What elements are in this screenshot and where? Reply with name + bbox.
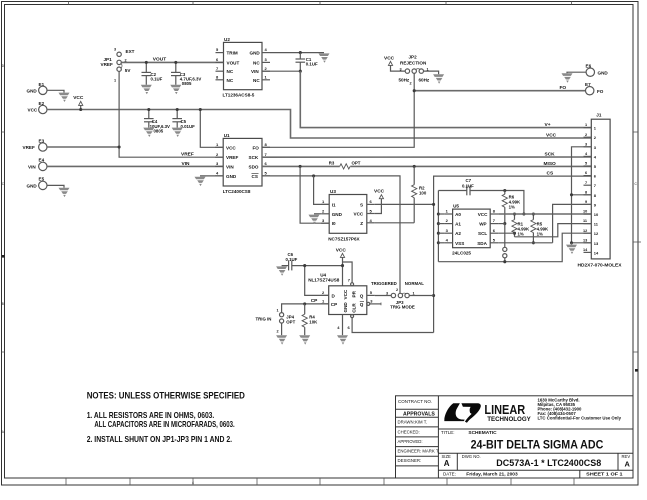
eeprom U5 24LC025 bbox=[445, 204, 499, 256]
capacitor C4 bbox=[144, 108, 170, 134]
svg-text:NORMAL: NORMAL bbox=[405, 281, 424, 286]
svg-text:NC: NC bbox=[227, 78, 234, 83]
resistor R3 bbox=[329, 161, 361, 169]
terminal E5 bbox=[27, 177, 48, 190]
svg-text:VIN: VIN bbox=[251, 69, 259, 74]
terminal E6 bbox=[586, 64, 609, 77]
svg-text:VCC: VCC bbox=[546, 132, 557, 138]
ground bbox=[141, 85, 152, 94]
svg-text:C7: C7 bbox=[466, 178, 472, 183]
capacitor C2 bbox=[142, 61, 163, 85]
svg-text:VCC: VCC bbox=[73, 95, 84, 101]
svg-text:REJECTION: REJECTION bbox=[400, 61, 427, 66]
svg-text:NC7SZ157P6X: NC7SZ157P6X bbox=[328, 236, 360, 241]
svg-text:2: 2 bbox=[396, 288, 398, 292]
svg-text:REV: REV bbox=[622, 454, 631, 459]
wire E1 to ground bbox=[47, 90, 64, 92]
svg-text:E4: E4 bbox=[39, 158, 45, 163]
svg-text:0.1UF: 0.1UF bbox=[306, 61, 318, 66]
svg-text:S: S bbox=[360, 202, 363, 207]
svg-text:HD2X7-070-MOLEX: HD2X7-070-MOLEX bbox=[578, 262, 622, 267]
svg-text:50Hz: 50Hz bbox=[399, 77, 410, 82]
wire U1 CS to U3 pin 1 bbox=[314, 176, 330, 205]
svg-text:PR: PR bbox=[352, 290, 357, 297]
resistor R1 bbox=[512, 212, 530, 236]
svg-text:GND: GND bbox=[343, 302, 348, 313]
svg-text:KIM T.: KIM T. bbox=[415, 420, 427, 425]
svg-text:0.01UF: 0.01UF bbox=[181, 124, 196, 129]
svg-text:VCC: VCC bbox=[374, 189, 385, 195]
svg-text:11: 11 bbox=[583, 219, 587, 223]
svg-text:GND: GND bbox=[27, 183, 38, 188]
wire SCL to J1 pin 11 bbox=[515, 224, 592, 237]
svg-text:9: 9 bbox=[585, 200, 587, 204]
jumper JP2 REJECTION bbox=[399, 55, 430, 86]
wire U3 GND to ground bbox=[314, 213, 321, 215]
svg-text:CONTRACT NO.: CONTRACT NO. bbox=[398, 399, 432, 404]
svg-text:0.1UF: 0.1UF bbox=[151, 77, 163, 82]
jumper JP3 TRIG MODE bbox=[371, 281, 434, 310]
logo LTC bbox=[444, 403, 531, 423]
svg-text:DC573A-1 * LTC2400CS8: DC573A-1 * LTC2400CS8 bbox=[496, 458, 601, 468]
svg-text:1%: 1% bbox=[537, 232, 543, 237]
svg-text:TITLE:: TITLE: bbox=[441, 430, 455, 435]
svg-text:10K: 10K bbox=[309, 320, 318, 325]
ground bbox=[337, 335, 348, 344]
wire U3 Z to R2 bbox=[375, 222, 414, 224]
wire U3 S to node bbox=[375, 203, 435, 206]
svg-text:3: 3 bbox=[114, 48, 116, 52]
svg-text:12: 12 bbox=[594, 231, 599, 236]
VCC symbol at JP2 bbox=[384, 55, 405, 71]
wire E3 to JP1 net bbox=[47, 146, 119, 148]
svg-text:A: A bbox=[444, 459, 450, 468]
wire VCC to U4 PR pin bbox=[343, 262, 353, 283]
svg-text:SDA: SDA bbox=[477, 241, 487, 246]
svg-text:OPT: OPT bbox=[286, 319, 295, 324]
svg-text:WP: WP bbox=[479, 222, 486, 227]
svg-text:2: 2 bbox=[410, 82, 412, 86]
svg-text:DATE:: DATE: bbox=[443, 472, 456, 477]
svg-text:Friday, March 21, 2003: Friday, March 21, 2003 bbox=[466, 472, 518, 478]
ground at C6 bbox=[276, 266, 287, 275]
svg-text:TRIG MODE: TRIG MODE bbox=[390, 305, 415, 310]
svg-text:U2: U2 bbox=[224, 37, 230, 42]
svg-text:SCL: SCL bbox=[478, 231, 487, 236]
svg-text:VCC: VCC bbox=[28, 108, 38, 113]
wire JP1 pin1 down to VREF net and U1 pin 2 bbox=[118, 71, 224, 157]
svg-text:FO: FO bbox=[597, 89, 604, 94]
svg-text:GND: GND bbox=[598, 70, 609, 75]
ground bbox=[195, 177, 206, 186]
wire U5 address bus bbox=[437, 191, 445, 262]
svg-text:GND: GND bbox=[27, 88, 38, 93]
svg-text:EXT: EXT bbox=[126, 49, 135, 54]
size dwg rev row bbox=[442, 454, 631, 468]
date sheet row bbox=[443, 472, 623, 478]
svg-text:R3: R3 bbox=[329, 161, 335, 166]
title row bbox=[441, 430, 604, 451]
svg-text:0.1UF: 0.1UF bbox=[462, 183, 474, 188]
wire U4 GND to ground bbox=[342, 315, 344, 336]
svg-text:Q: Q bbox=[360, 294, 364, 299]
wire CS U1 pin 5 to JP3 pin 2 bbox=[262, 174, 400, 293]
svg-text:A2: A2 bbox=[455, 231, 461, 236]
svg-text:2. INSTALL SHUNT ON JP1-JP3 P: 2. INSTALL SHUNT ON JP1-JP3 PIN 1 AND 2. bbox=[87, 434, 232, 444]
svg-text:J1: J1 bbox=[596, 112, 602, 117]
notes text bbox=[87, 391, 245, 444]
svg-text:LTC2400CS8: LTC2400CS8 bbox=[223, 189, 251, 194]
connector J1 HD2X7-070-MOLEX bbox=[578, 112, 622, 267]
VCC symbol bbox=[73, 95, 84, 111]
svg-text:1%: 1% bbox=[509, 204, 515, 209]
svg-text:6: 6 bbox=[585, 171, 587, 175]
wire SDO/MISO U1 pin 6 to J1 pin 5 bbox=[262, 165, 591, 168]
terminal E1 bbox=[27, 82, 48, 95]
svg-text:0805: 0805 bbox=[182, 81, 192, 86]
terminal E7 bbox=[585, 82, 604, 95]
svg-text:TRIGGERED: TRIGGERED bbox=[371, 281, 397, 286]
wire E6 to ground bbox=[567, 72, 586, 73]
svg-text:CP: CP bbox=[331, 302, 337, 307]
svg-text:VOUT: VOUT bbox=[227, 60, 240, 65]
capacitor C5 bbox=[172, 108, 195, 129]
svg-text:LT1236ACS8-5: LT1236ACS8-5 bbox=[223, 93, 255, 98]
svg-text:Z: Z bbox=[360, 221, 363, 226]
wire VCC rail E2 to J1 pin 2 bbox=[47, 110, 591, 139]
svg-text:VOUT: VOUT bbox=[153, 56, 166, 62]
svg-text:APPROVED:: APPROVED: bbox=[398, 439, 423, 444]
wire FO U1 pin 8 to JP2 and E7 bbox=[262, 73, 586, 147]
svg-text:VCC: VCC bbox=[226, 145, 236, 150]
svg-text:1: 1 bbox=[277, 309, 279, 313]
svg-text:VCC: VCC bbox=[354, 212, 364, 217]
wire VCC to U1 pin 1 bbox=[199, 108, 223, 147]
svg-text:E7: E7 bbox=[585, 82, 591, 87]
svg-text:SCK: SCK bbox=[249, 155, 259, 160]
svg-text:LTC Confidential-For Customer: LTC Confidential-For Customer Use Only bbox=[538, 416, 622, 421]
wire VIN E4 to U1 pin 3 bbox=[47, 165, 223, 167]
svg-text:4: 4 bbox=[192, 481, 194, 485]
svg-text:VREF: VREF bbox=[101, 62, 113, 67]
svg-text:100: 100 bbox=[419, 190, 427, 195]
resistor R2 bbox=[412, 166, 427, 222]
wire U2 GND to ground bbox=[270, 51, 324, 54]
svg-text:NL17SZ74US8: NL17SZ74US8 bbox=[308, 278, 340, 283]
svg-text:VCC: VCC bbox=[343, 289, 348, 299]
svg-text:VSS: VSS bbox=[455, 241, 464, 246]
svg-text:A: A bbox=[625, 459, 631, 468]
terminal E2 bbox=[28, 101, 48, 114]
wire U1 SDO to U3 pin 3 bbox=[300, 166, 329, 223]
ground bbox=[562, 73, 573, 82]
wire U4 CLR loop to JP3 pin1 and S node bbox=[352, 294, 435, 333]
svg-text:ALL CAPACITORS ARE IN MICROFAR: ALL CAPACITORS ARE IN MICROFARADS, 0603. bbox=[94, 419, 234, 429]
svg-text:MISO: MISO bbox=[544, 161, 557, 167]
svg-text:GND: GND bbox=[332, 212, 343, 217]
svg-text:10: 10 bbox=[583, 210, 587, 214]
svg-text:24LC025: 24LC025 bbox=[452, 251, 471, 256]
VCC symbol at U3 bbox=[374, 189, 385, 214]
svg-text:A0: A0 bbox=[455, 212, 461, 217]
svg-text:FO: FO bbox=[253, 145, 260, 150]
svg-text:TECHNOLOGY: TECHNOLOGY bbox=[487, 416, 531, 423]
svg-text:SCHEMATIC: SCHEMATIC bbox=[468, 430, 497, 436]
svg-text:3: 3 bbox=[585, 142, 587, 146]
svg-text:E2: E2 bbox=[39, 101, 45, 106]
svg-text:U1: U1 bbox=[224, 133, 230, 138]
wire VOUT JP1 pin 2 to U2 pin 6 bbox=[121, 61, 223, 63]
svg-text:3: 3 bbox=[386, 291, 388, 295]
svg-text:VCC: VCC bbox=[336, 247, 347, 253]
title block left column text bbox=[398, 399, 440, 463]
svg-text:SCK: SCK bbox=[545, 151, 556, 157]
jumper WP bbox=[503, 224, 507, 262]
svg-text:DRAWN:: DRAWN: bbox=[398, 420, 415, 425]
ground bbox=[59, 93, 70, 102]
svg-text:E5: E5 bbox=[39, 177, 45, 182]
ground at J1 bbox=[566, 245, 577, 254]
ground at JP4 bbox=[276, 335, 287, 344]
wire E5 to ground bbox=[47, 185, 64, 187]
svg-text:VIN: VIN bbox=[182, 161, 191, 167]
svg-text:CS: CS bbox=[252, 174, 258, 179]
svg-text:U3: U3 bbox=[330, 189, 336, 194]
capacitor C6 bbox=[282, 252, 343, 270]
wire SCK U1 pin 7 to J1 pin 4 bbox=[262, 156, 591, 158]
svg-text:E6: E6 bbox=[586, 64, 592, 69]
svg-text:U5: U5 bbox=[453, 204, 459, 209]
svg-text:1: 1 bbox=[114, 79, 116, 83]
svg-text:1%: 1% bbox=[518, 232, 524, 237]
svg-text:ENGINEER: MARK T.: ENGINEER: MARK T. bbox=[398, 449, 440, 454]
svg-text:13: 13 bbox=[583, 238, 587, 242]
svg-text:0805: 0805 bbox=[154, 129, 164, 134]
resistor R5 bbox=[531, 212, 549, 244]
svg-text:E1: E1 bbox=[39, 82, 45, 87]
wire CS J1 pin 6 branch bbox=[434, 176, 592, 332]
resistor R4 bbox=[302, 304, 318, 335]
svg-text:A1: A1 bbox=[455, 222, 461, 227]
svg-text:10: 10 bbox=[594, 212, 599, 217]
svg-text:TRIM: TRIM bbox=[227, 51, 238, 56]
wire U5 VCC to J1 pin 10 bbox=[498, 213, 591, 215]
svg-text:VREF: VREF bbox=[226, 155, 238, 160]
op-amp U2 LT1236ACS8-5 bbox=[216, 37, 271, 98]
svg-text:12: 12 bbox=[583, 229, 587, 233]
wire U1 GND to ground bbox=[200, 175, 223, 177]
svg-text:FO: FO bbox=[560, 85, 567, 91]
svg-text:CS: CS bbox=[547, 171, 554, 177]
capacitor C7 bbox=[438, 178, 474, 195]
svg-text:SHEET 1 OF 1: SHEET 1 OF 1 bbox=[586, 472, 623, 478]
svg-text:VREF: VREF bbox=[181, 152, 194, 158]
capacitor C1 bbox=[296, 53, 318, 72]
wire U5 SDA to J1 pin 9 bbox=[498, 204, 591, 242]
svg-text:NC: NC bbox=[253, 60, 260, 65]
mux U3 NC7SZ157P6X bbox=[321, 189, 375, 242]
op-amp U1 LTC2400CS8 bbox=[215, 133, 270, 194]
svg-text:CLR: CLR bbox=[352, 303, 357, 313]
VCC symbol at U4 bbox=[336, 247, 347, 285]
svg-text:GND: GND bbox=[250, 51, 261, 56]
terminal E4 bbox=[28, 158, 47, 171]
svg-text:VCC: VCC bbox=[478, 212, 488, 217]
svg-text:CHECKED:: CHECKED: bbox=[398, 429, 420, 434]
svg-text:V+: V+ bbox=[545, 122, 551, 128]
wire C6 node to U4 D pin bbox=[303, 264, 329, 295]
wire U5 WP to R6 bbox=[498, 223, 505, 225]
title block frame bbox=[396, 396, 634, 478]
svg-text:I0: I0 bbox=[332, 221, 336, 226]
wire J1 ground bus pins 3 8 13 bbox=[570, 147, 591, 245]
svg-text:2: 2 bbox=[277, 330, 279, 334]
wire U5 SCL to R1 bbox=[498, 232, 514, 234]
resistor R6 bbox=[502, 191, 521, 226]
ground bbox=[172, 128, 183, 137]
svg-text:VREF: VREF bbox=[23, 145, 35, 150]
svg-text:14: 14 bbox=[594, 250, 599, 255]
svg-text:60Hz: 60Hz bbox=[419, 77, 430, 82]
svg-text:24-BIT DELTA SIGMA ADC: 24-BIT DELTA SIGMA ADC bbox=[471, 437, 604, 451]
wire C7 to VCC net corner bbox=[470, 189, 525, 216]
svg-text:E3: E3 bbox=[39, 138, 45, 143]
svg-text:2: 2 bbox=[585, 133, 587, 137]
svg-text:NC: NC bbox=[253, 78, 260, 83]
ground bbox=[143, 128, 154, 137]
svg-text:VIN: VIN bbox=[226, 164, 234, 169]
wire U2 VIN / V+ to J1 pin 1 bbox=[262, 70, 591, 128]
svg-text:DWG NO.: DWG NO. bbox=[462, 454, 481, 459]
svg-text:NC: NC bbox=[227, 69, 234, 74]
svg-text:OPT: OPT bbox=[352, 161, 361, 166]
svg-text:CP: CP bbox=[311, 298, 318, 304]
svg-text:5V: 5V bbox=[125, 68, 132, 73]
svg-text:TRIG IN: TRIG IN bbox=[256, 316, 272, 321]
ground bbox=[309, 215, 320, 224]
ground at R4 bbox=[299, 335, 310, 344]
svg-text:0.1UF: 0.1UF bbox=[286, 257, 298, 262]
svg-text:Q: Q bbox=[360, 302, 364, 307]
svg-text:1: 1 bbox=[413, 291, 415, 295]
svg-text:7: 7 bbox=[585, 181, 587, 185]
company address bbox=[538, 398, 622, 421]
flip-flop U4 NL17SZ74US8 bbox=[308, 272, 381, 330]
jumper JP1 VREF bbox=[101, 48, 135, 83]
svg-text:5: 5 bbox=[585, 162, 587, 166]
svg-text:GND: GND bbox=[226, 174, 237, 179]
svg-text:DESIGNER:: DESIGNER: bbox=[398, 458, 422, 463]
svg-text:SDO: SDO bbox=[249, 164, 259, 169]
capacitor C3 bbox=[171, 61, 201, 86]
svg-text:8: 8 bbox=[585, 190, 587, 194]
ground bbox=[319, 53, 330, 62]
wire CP net bbox=[282, 298, 329, 313]
ground bbox=[433, 74, 444, 83]
wire JP2 pin 1 to ground bbox=[424, 71, 439, 74]
svg-text:APPROVALS: APPROVALS bbox=[403, 411, 435, 417]
svg-text:1: 1 bbox=[585, 123, 587, 127]
svg-text:B: B bbox=[2, 302, 4, 306]
jumper JP4 OPT bbox=[256, 309, 296, 336]
svg-text:I1: I1 bbox=[332, 202, 336, 207]
svg-text:13: 13 bbox=[594, 241, 599, 246]
ground bbox=[170, 85, 181, 94]
svg-text:JP2: JP2 bbox=[409, 55, 418, 60]
ground bbox=[59, 188, 70, 197]
svg-text:VIN: VIN bbox=[28, 164, 36, 169]
svg-text:NOTES: UNLESS OTHERWISE SPECI: NOTES: UNLESS OTHERWISE SPECIFIED bbox=[87, 391, 245, 402]
wire ground loop to J1 pin 12 bbox=[438, 233, 591, 263]
terminal E3 bbox=[23, 138, 48, 151]
svg-text:VCC: VCC bbox=[384, 55, 395, 61]
